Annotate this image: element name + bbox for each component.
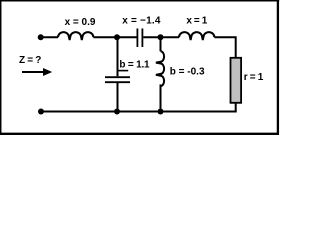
svg-text:Z = ?: Z = ? [19,55,41,66]
svg-text:b = 1.1: b = 1.1 [119,60,150,71]
svg-text:x = 0.9: x = 0.9 [65,17,96,28]
svg-text:b = -0.3: b = -0.3 [170,67,205,78]
svg-text:x = −1.4: x = −1.4 [122,15,161,26]
svg-text:r = 1: r = 1 [244,72,264,83]
svg-text:x = 1: x = 1 [186,16,207,27]
